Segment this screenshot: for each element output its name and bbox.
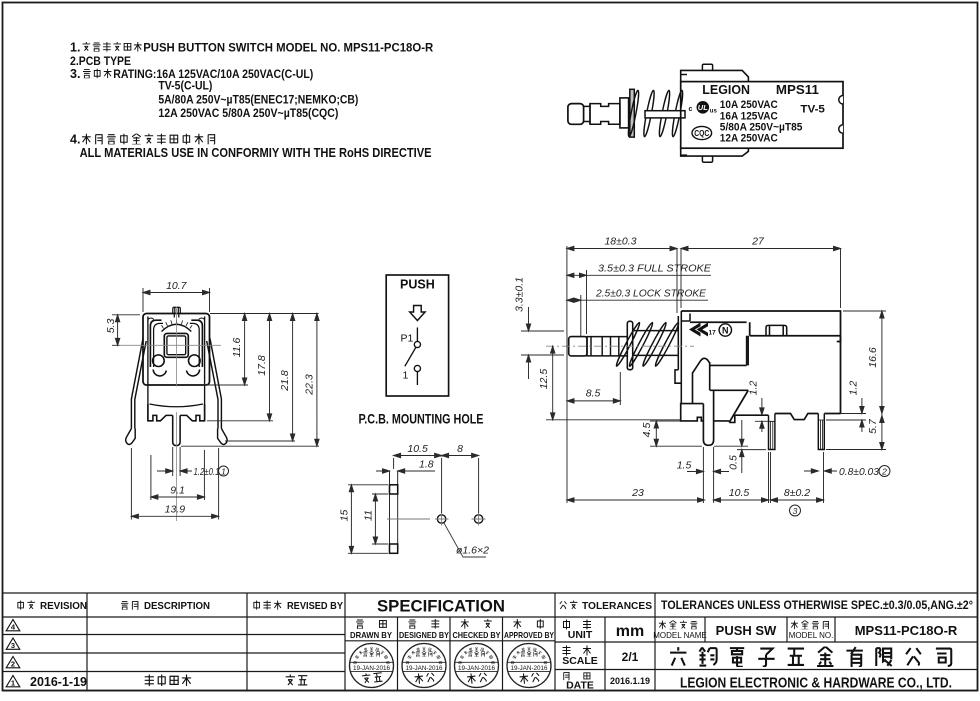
svg-text:P.C.B. MOUNTING HOLE: P.C.B. MOUNTING HOLE — [359, 412, 484, 427]
svg-text:DRAWN BY: DRAWN BY — [350, 630, 392, 640]
svg-text:5.3: 5.3 — [105, 319, 117, 334]
svg-text:8.5: 8.5 — [586, 388, 601, 400]
svg-text:11.6: 11.6 — [231, 338, 243, 358]
svg-text:RATING:16A 125VAC/10A 250VAC(C: RATING:16A 125VAC/10A 250VAC(C-UL) — [113, 67, 313, 81]
svg-text:27: 27 — [751, 236, 765, 248]
svg-text:us: us — [710, 109, 718, 115]
svg-text:1.2: 1.2 — [747, 381, 759, 396]
svg-text:22.3: 22.3 — [304, 374, 316, 396]
svg-text:P1: P1 — [401, 333, 414, 345]
svg-text:ALL MATERIALS USE IN CONFORMIY: ALL MATERIALS USE IN CONFORMIY WITH THE … — [80, 146, 432, 160]
svg-text:2: 2 — [881, 466, 887, 476]
svg-text:15: 15 — [339, 510, 351, 522]
svg-text:19-JAN-2016: 19-JAN-2016 — [405, 665, 443, 672]
svg-text:21.8: 21.8 — [279, 370, 291, 392]
svg-text:1: 1 — [11, 679, 15, 688]
svg-text:8±0.2: 8±0.2 — [784, 487, 810, 499]
svg-text:2.PCB TYPE: 2.PCB TYPE — [70, 54, 131, 68]
svg-text:12.5: 12.5 — [538, 369, 550, 390]
svg-text:TOLERANCES: TOLERANCES — [582, 600, 652, 612]
svg-text:1.8: 1.8 — [419, 458, 434, 470]
svg-text:UNIT: UNIT — [568, 629, 593, 641]
svg-text:17.8: 17.8 — [256, 355, 268, 376]
svg-text:PUSH BUTTON SWITCH MODEL NO. M: PUSH BUTTON SWITCH MODEL NO. MPS11-PC18O… — [143, 41, 433, 55]
svg-text:1: 1 — [221, 466, 226, 476]
svg-text:19-JAN-2016: 19-JAN-2016 — [510, 665, 548, 672]
svg-text:18±0.3: 18±0.3 — [604, 236, 636, 248]
svg-text:4.5: 4.5 — [641, 423, 653, 438]
svg-text:MODEL NO.: MODEL NO. — [789, 631, 834, 640]
svg-text:13.9: 13.9 — [165, 504, 186, 516]
svg-text:23: 23 — [631, 487, 644, 499]
svg-text:MPS11: MPS11 — [776, 83, 819, 97]
svg-text:CQC: CQC — [694, 129, 709, 138]
svg-text:8: 8 — [457, 443, 463, 455]
svg-text:SCALE: SCALE — [562, 655, 598, 667]
svg-text:16A 125VAC: 16A 125VAC — [720, 110, 778, 122]
svg-text:16.6: 16.6 — [867, 347, 879, 368]
svg-text:2016.1.19: 2016.1.19 — [610, 676, 650, 686]
svg-text:1.2±0.1: 1.2±0.1 — [194, 466, 220, 478]
svg-text:0.5: 0.5 — [728, 455, 740, 470]
svg-text:REVISED BY: REVISED BY — [287, 600, 343, 612]
svg-text:DESCRIPTION: DESCRIPTION — [144, 600, 210, 612]
svg-text:SPECIFICATION: SPECIFICATION — [377, 598, 505, 616]
svg-text:2016-1-19: 2016-1-19 — [30, 675, 87, 689]
svg-text:MODEL NAME: MODEL NAME — [653, 631, 707, 640]
svg-text:PUSH: PUSH — [400, 278, 435, 292]
svg-text:12A 250VAC: 12A 250VAC — [720, 133, 778, 145]
svg-text:2: 2 — [11, 660, 15, 669]
svg-text:LEGION: LEGION — [702, 83, 750, 97]
svg-text:TV-5(C-UL): TV-5(C-UL) — [158, 79, 212, 93]
svg-text:11: 11 — [362, 510, 374, 521]
svg-text:3.3±0.1: 3.3±0.1 — [514, 277, 526, 312]
svg-text:5A/80A 250V~µT85(ENEC17;NEMKO;: 5A/80A 250V~µT85(ENEC17;NEMKO;CB) — [158, 92, 358, 106]
svg-text:10.7: 10.7 — [166, 280, 188, 292]
svg-text:TOLERANCES UNLESS OTHERWISE SP: TOLERANCES UNLESS OTHERWISE SPEC.±0.3/0.… — [661, 598, 973, 612]
svg-text:17: 17 — [709, 330, 717, 337]
svg-text:2/1: 2/1 — [622, 650, 639, 664]
svg-text:10.5: 10.5 — [729, 487, 750, 499]
svg-text:TV-5: TV-5 — [800, 104, 825, 116]
svg-text:19-JAN-2016: 19-JAN-2016 — [458, 665, 496, 672]
svg-text:ø1.6×2: ø1.6×2 — [456, 545, 489, 557]
svg-text:1.5: 1.5 — [677, 460, 692, 472]
svg-text:DATE: DATE — [566, 680, 594, 692]
svg-text:PUSH SW: PUSH SW — [716, 623, 777, 638]
svg-text:LEGION ELECTRONIC & HARDWARE C: LEGION ELECTRONIC & HARDWARE CO., LTD. — [680, 676, 952, 692]
svg-text:3.: 3. — [70, 67, 80, 81]
svg-text:1.: 1. — [70, 41, 80, 55]
svg-text:DESIGNED BY: DESIGNED BY — [399, 630, 449, 640]
svg-text:19-JAN-2016: 19-JAN-2016 — [353, 665, 391, 672]
svg-text:3: 3 — [793, 506, 798, 516]
svg-text:4.: 4. — [70, 133, 80, 147]
svg-text:1: 1 — [403, 370, 409, 382]
svg-text:N: N — [722, 325, 729, 335]
svg-text:UL: UL — [698, 103, 708, 112]
svg-text:10.5: 10.5 — [407, 443, 428, 455]
svg-text:1.2: 1.2 — [847, 381, 859, 396]
svg-text:3: 3 — [11, 641, 15, 650]
svg-text:APPROVED BY: APPROVED BY — [504, 630, 554, 640]
svg-text:5.7: 5.7 — [867, 418, 879, 434]
svg-text:CHECKED BY: CHECKED BY — [453, 630, 501, 640]
svg-text:2.5±0.3 LOCK STROKE: 2.5±0.3 LOCK STROKE — [595, 287, 707, 299]
svg-text:9.1: 9.1 — [170, 484, 185, 496]
svg-text:12A 250VAC 5/80A 250V~µT85(CQC: 12A 250VAC 5/80A 250V~µT85(CQC) — [158, 106, 338, 120]
svg-text:3.5±0.3 FULL STROKE: 3.5±0.3 FULL STROKE — [598, 263, 712, 275]
svg-text:MPS11-PC18O-R: MPS11-PC18O-R — [855, 623, 958, 638]
svg-text:0.8±0.03: 0.8±0.03 — [839, 466, 879, 478]
svg-text:REVISION: REVISION — [40, 600, 87, 612]
svg-text:10A 250VAC: 10A 250VAC — [720, 99, 778, 111]
svg-text:c: c — [689, 106, 693, 113]
svg-text:mm: mm — [616, 623, 644, 640]
